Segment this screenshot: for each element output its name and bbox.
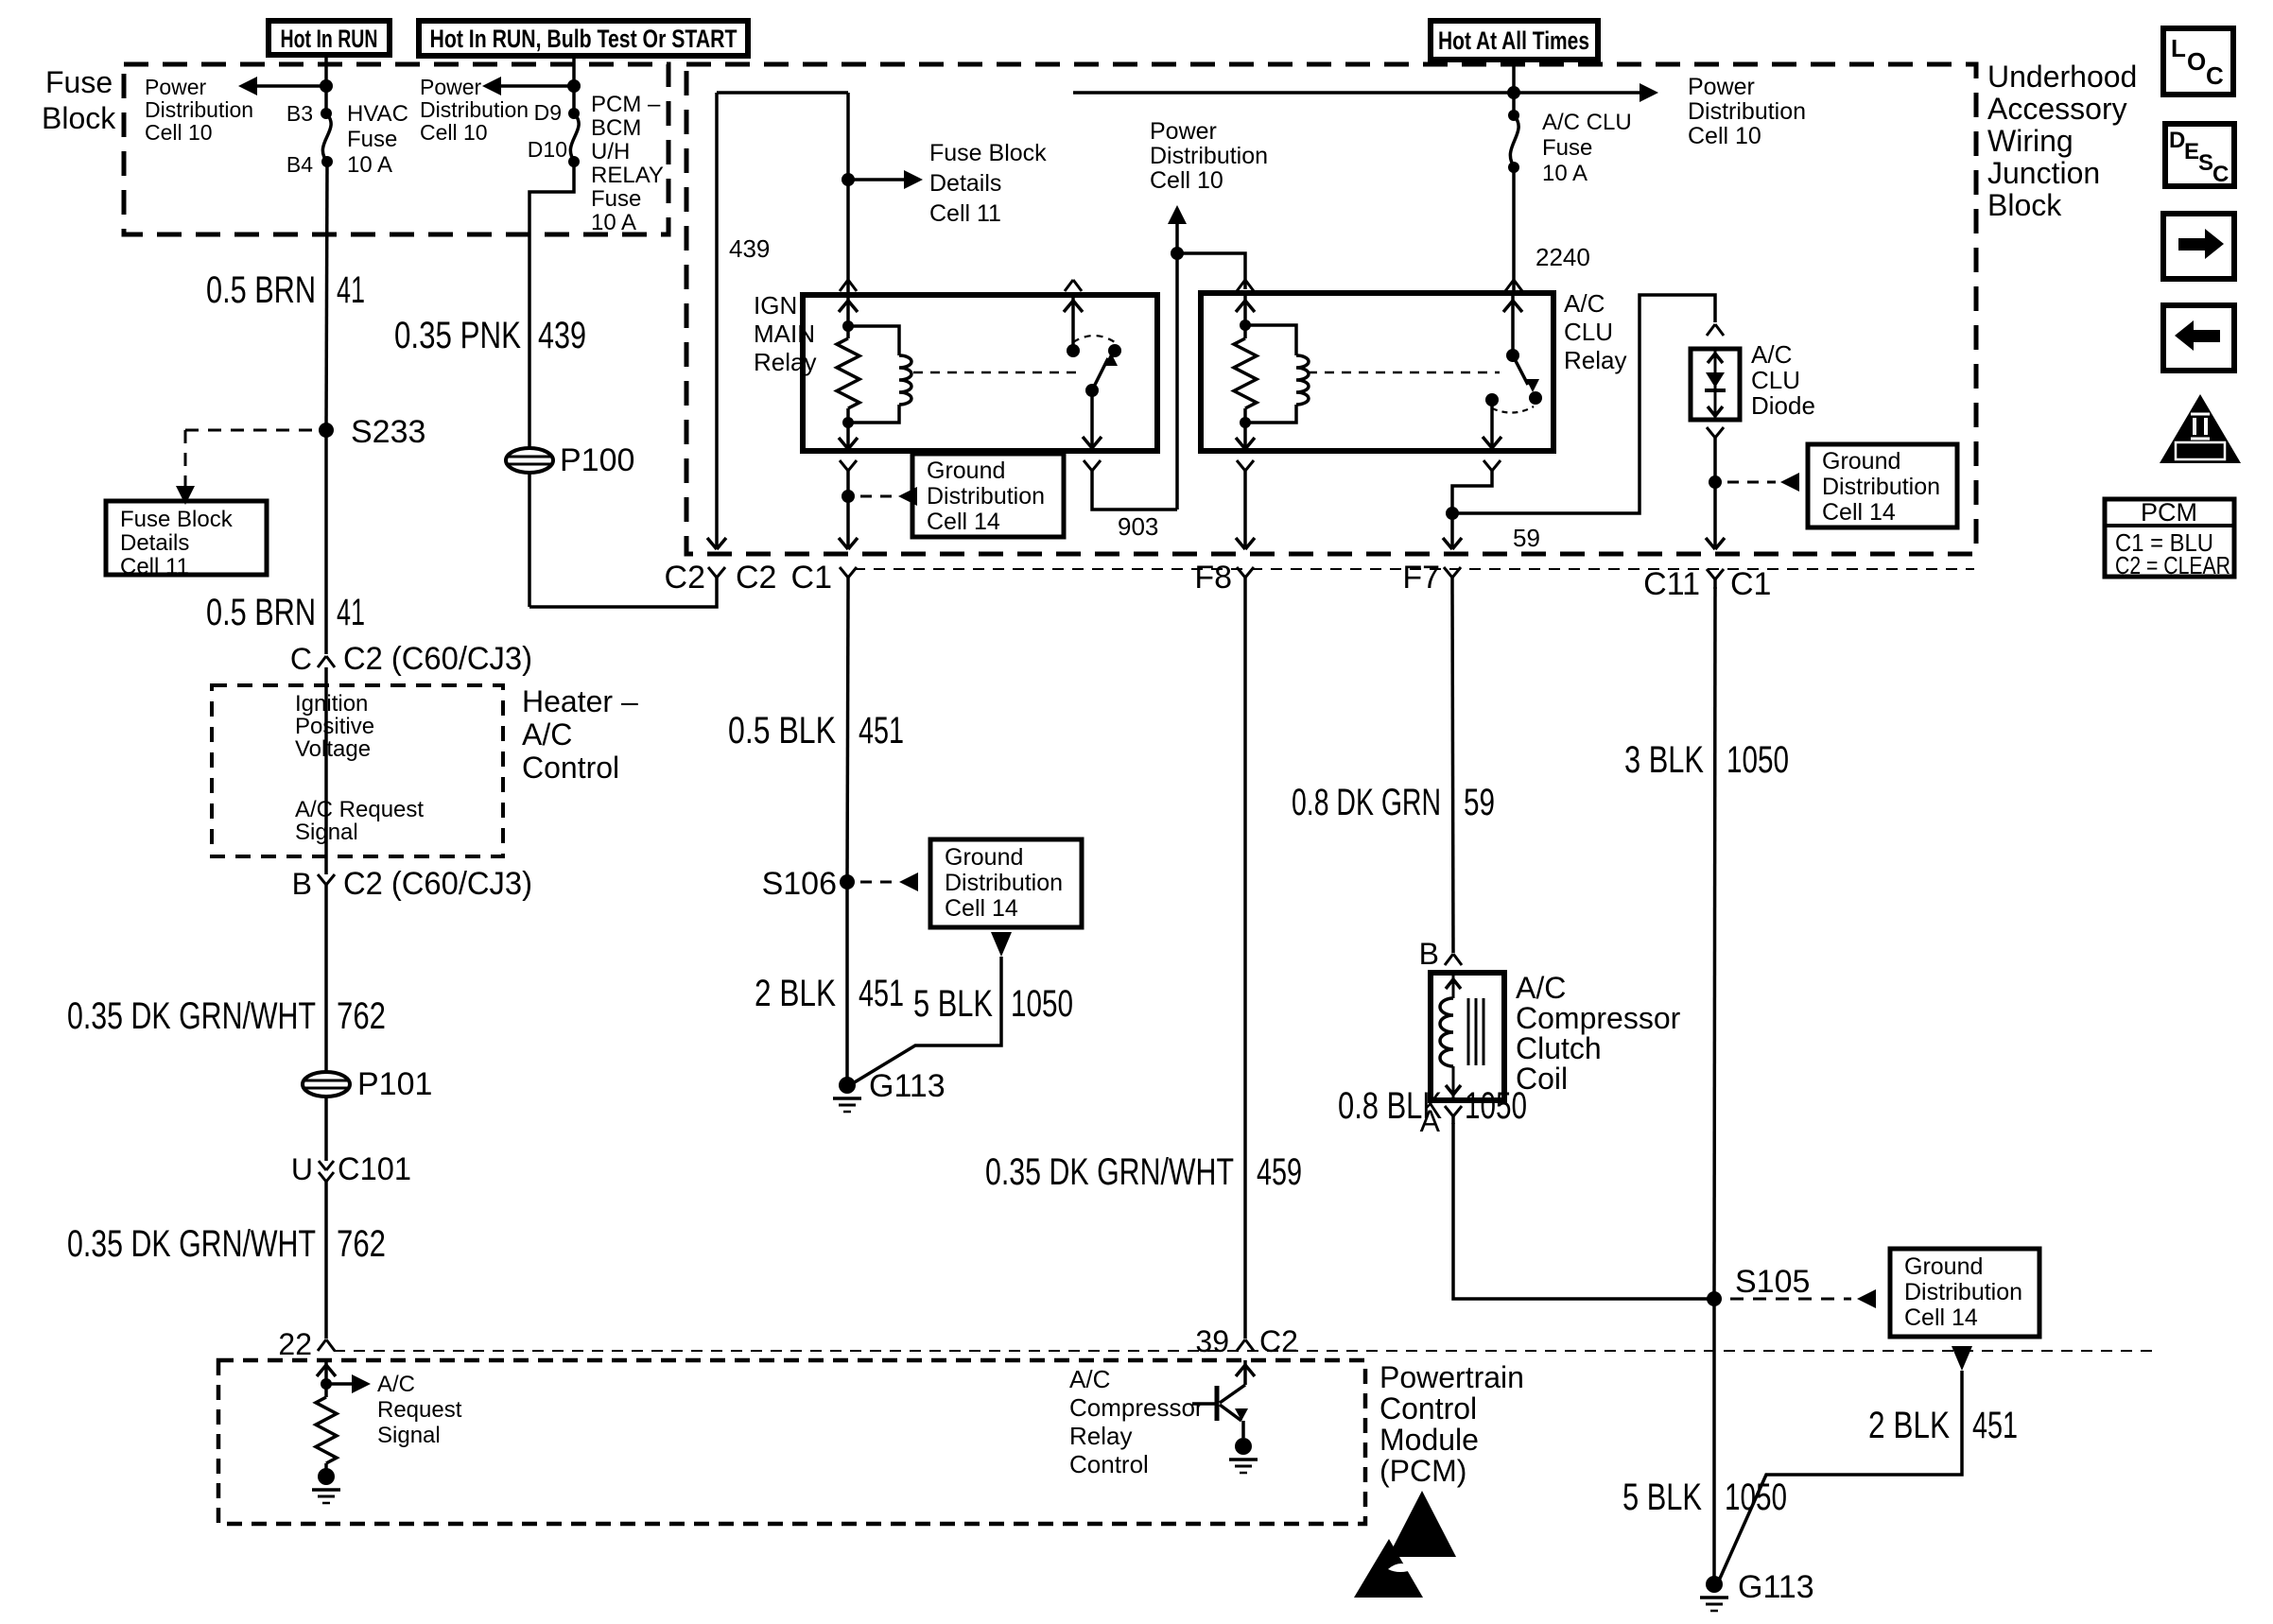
wire 451: S106 down to G113	[845, 882, 849, 1085]
connector Y at clutch A	[1445, 1106, 1462, 1124]
connector C / C2 (C60/CJ3)	[290, 641, 532, 677]
svg-text:C: C	[2212, 162, 2229, 187]
svg-text:Fuse Block: Fuse Block	[929, 140, 1047, 166]
svg-text:P101: P101	[357, 1066, 432, 1102]
svg-text:Cell 10: Cell 10	[145, 120, 213, 145]
svg-text:Module: Module	[1379, 1423, 1479, 1457]
A/C CLU diode box	[1691, 349, 1740, 420]
wire 451: C1 down to S106	[847, 587, 848, 882]
IGN relay switch moving contact	[1108, 344, 1121, 357]
power flag box: Hot In RUN	[269, 21, 390, 55]
connector U / C101	[291, 1151, 411, 1187]
wire label 3 BLK | 1050	[1624, 739, 1789, 781]
connector chevron at PCM pin 39	[1237, 1339, 1254, 1351]
AC relay resistor	[1234, 325, 1257, 423]
svg-text:Cell 10: Cell 10	[1150, 167, 1223, 194]
svg-text:(PCM): (PCM)	[1379, 1454, 1466, 1488]
wire: Bulb Test feed down to D9	[572, 56, 576, 113]
svg-text:Cell 11: Cell 11	[120, 554, 189, 579]
chevron into AC relay top (switch)	[1505, 280, 1522, 291]
label Fuse Block Details Cell 11	[929, 140, 1047, 227]
wire 439: under block to P100 branch	[529, 587, 717, 607]
label A/C Compressor Relay Control	[1069, 1365, 1204, 1478]
pin label D10	[528, 137, 567, 162]
svg-text:Details: Details	[120, 530, 189, 556]
wire 2240 down to AC relay switch	[1512, 167, 1516, 292]
wire inside heater box	[324, 667, 328, 874]
svg-text:C2: C2	[1259, 1324, 1298, 1358]
title Underhood Accessory Wiring Junction Block	[1987, 60, 2137, 222]
wire 439 top link	[717, 91, 848, 95]
svg-text:5 BLK: 5 BLK	[1622, 1477, 1702, 1518]
net label 59	[1513, 524, 1540, 552]
chevron into diode top	[1707, 324, 1724, 336]
svg-text:Positive: Positive	[295, 714, 374, 739]
svg-text:CLU: CLU	[1751, 366, 1800, 394]
fuse A/C CLU 10A symbol	[1510, 115, 1518, 167]
icon box right arrow	[2163, 214, 2234, 279]
svg-text:Fuse: Fuse	[1542, 135, 1592, 161]
dashed ref to Ground Distribution (S106)	[860, 872, 918, 891]
svg-text:S233: S233	[351, 414, 425, 450]
svg-text:D9: D9	[534, 100, 562, 125]
svg-text:F7: F7	[1402, 560, 1440, 596]
svg-text:Cell 14: Cell 14	[945, 895, 1018, 922]
svg-text:22: 22	[278, 1327, 312, 1361]
transistor Q (A/C compressor relay control)	[1192, 1385, 1248, 1438]
IGN relay actuator dashed link	[913, 371, 1084, 374]
AC relay switch arm	[1513, 355, 1539, 392]
svg-text:C2 (C60/CJ3): C2 (C60/CJ3)	[343, 866, 532, 902]
svg-text:MAIN: MAIN	[754, 320, 815, 348]
junction node on coil feed	[842, 173, 855, 186]
reference box Fuse Block Details Cell 11	[106, 501, 267, 579]
AC relay switch output arrow	[1483, 400, 1501, 448]
svg-text:RELAY: RELAY	[591, 163, 664, 188]
svg-text:Hot At All Times: Hot At All Times	[1438, 26, 1589, 55]
svg-text:C2 (C60/CJ3): C2 (C60/CJ3)	[343, 641, 532, 677]
svg-text:S106: S106	[762, 866, 837, 902]
svg-text:0.5 BRN: 0.5 BRN	[206, 592, 316, 633]
svg-text:Fuse: Fuse	[591, 186, 641, 212]
svg-text:PCM –: PCM –	[591, 92, 661, 117]
wire 59 down to F7 exit	[1443, 513, 1462, 549]
wire: Hot At All Times down	[1512, 60, 1516, 115]
svg-text:1050: 1050	[1465, 1085, 1527, 1127]
wire label 0.5 BRN | 41 (lower)	[206, 592, 365, 633]
IGN relay switch fixed contact	[1064, 295, 1083, 357]
AC relay bottom node	[1240, 417, 1251, 428]
pass-through grommet P101	[303, 1066, 432, 1102]
svg-text:5 BLK: 5 BLK	[913, 983, 993, 1025]
svg-text:PCM: PCM	[2141, 498, 2197, 527]
ground G113 (left)	[833, 1068, 946, 1112]
label IGN MAIN Relay	[754, 291, 816, 376]
svg-text:Power: Power	[1150, 118, 1217, 145]
connector exit C2 (PNK 439)	[665, 560, 777, 596]
reference box Ground Distribution Cell 14 (S105)	[1890, 1249, 2039, 1337]
svg-text:Diode: Diode	[1751, 391, 1815, 420]
label A/C Compressor Clutch Coil	[1516, 971, 1681, 1096]
svg-text:59: 59	[1513, 524, 1540, 552]
wire 439: P100 down	[528, 473, 531, 607]
svg-text:Power: Power	[1688, 74, 1755, 100]
connector exit C1	[791, 560, 857, 596]
svg-text:10 A: 10 A	[1542, 161, 1588, 186]
wire 41: B4 down to S233	[326, 162, 327, 430]
AC relay top node	[1240, 320, 1251, 331]
wire label 0.35 DK GRN/WHT | 762 (lower)	[67, 1223, 386, 1265]
fuse HVAC 10A symbol	[322, 113, 331, 162]
fuse PCM-BCM U/H RELAY symbol	[570, 113, 579, 162]
svg-text:Wiring: Wiring	[1987, 124, 2073, 158]
svg-text:HVAC: HVAC	[347, 101, 408, 127]
svg-text:U/H: U/H	[591, 139, 630, 164]
svg-text:C1: C1	[791, 560, 832, 596]
node D9	[568, 108, 580, 119]
fuse block title	[42, 65, 116, 135]
connector Y below IGN relay (coil)	[840, 460, 857, 480]
svg-text:451: 451	[1972, 1405, 2018, 1446]
chevron into IGN relay top (coil)	[840, 280, 857, 291]
connector exit C11 / C1	[1643, 566, 1771, 602]
svg-text:P100: P100	[560, 442, 634, 478]
pin label D9	[534, 100, 562, 125]
connector exit F8	[1194, 560, 1254, 596]
IGN relay coil wire arrow	[839, 295, 858, 326]
connector chevron at clutch B	[1445, 954, 1462, 965]
svg-text:O: O	[2187, 47, 2206, 76]
splice S105	[1707, 1264, 1810, 1306]
svg-text:A/C: A/C	[522, 717, 572, 752]
wire 762: C101 down to PCM pin 22	[324, 1182, 328, 1339]
wire: Hot In RUN feed down to B3	[324, 55, 328, 113]
svg-text:Ground: Ground	[927, 458, 1005, 484]
dashed ref to Ground Distribution (S105)	[1730, 1289, 1876, 1308]
connector Y below diode	[1707, 427, 1724, 445]
diode element	[1705, 349, 1726, 420]
svg-text:E: E	[2184, 139, 2199, 164]
label PCM-BCM U/H RELAY Fuse 10 A	[591, 92, 664, 235]
svg-text:Hot In RUN: Hot In RUN	[281, 25, 378, 53]
pass-through grommet P100	[506, 442, 634, 478]
svg-text:Relay: Relay	[1564, 346, 1626, 374]
svg-text:Distribution: Distribution	[1688, 98, 1806, 125]
reference box Ground Distribution Cell 14 (S106)	[930, 839, 1082, 927]
wire 59: F7 down to clutch B	[1452, 587, 1453, 953]
svg-text:D10: D10	[528, 137, 567, 162]
A/C request pull resistor	[316, 1384, 337, 1471]
svg-text:Control: Control	[1069, 1450, 1149, 1478]
svg-text:OBD II: OBD II	[2178, 444, 2222, 460]
svg-text:0.35 DK GRN/WHT: 0.35 DK GRN/WHT	[67, 1223, 316, 1265]
label Power Distribution Cell 10 (middle)	[1150, 118, 1268, 194]
svg-text:Distribution: Distribution	[145, 97, 253, 122]
svg-text:3 BLK: 3 BLK	[1624, 739, 1704, 781]
svg-text:Fuse: Fuse	[347, 127, 397, 152]
IGN relay switch arm	[1092, 353, 1118, 390]
wire label 2 BLK | 451 (right)	[1868, 1405, 2018, 1446]
svg-text:IGN: IGN	[754, 291, 797, 320]
svg-text:Distribution: Distribution	[1904, 1279, 2022, 1305]
A/C request node	[321, 1378, 332, 1390]
wire label 0.5 BRN | 41 (upper)	[206, 269, 365, 311]
wire 903 riser	[1175, 253, 1179, 510]
pin label B (clutch)	[1419, 937, 1439, 971]
wire label 5 BLK | 1050 (right)	[1622, 1477, 1787, 1518]
svg-text:Distribution: Distribution	[1150, 143, 1268, 169]
svg-text:0.8 DK GRN: 0.8 DK GRN	[1292, 782, 1441, 823]
wire label 0.5 BLK | 451	[728, 710, 904, 752]
net label 439	[729, 234, 770, 263]
wire label 5 BLK | 1050	[913, 983, 1073, 1025]
chevron into AC relay top (coil)	[1237, 280, 1254, 291]
svg-text:Distribution: Distribution	[1822, 474, 1940, 500]
wire 1050: diode to C11 exit	[1706, 445, 1725, 549]
svg-text:2240: 2240	[1536, 243, 1590, 271]
wire 439: D10 jog to P100	[529, 162, 574, 448]
label Power Distribution Cell 10 (second)	[420, 75, 529, 145]
svg-text:Details: Details	[929, 170, 1001, 197]
icon OBD II triangle	[2160, 394, 2241, 463]
wire: relay coil feed at C1 rail	[846, 93, 850, 292]
wire label 0.8 BLK | 1050	[1338, 1085, 1527, 1127]
heater A/C control dashed boundary	[212, 685, 503, 856]
PCM dashed boundary	[218, 1360, 1365, 1524]
svg-text:Distribution: Distribution	[945, 870, 1063, 896]
svg-text:0.35 PNK: 0.35 PNK	[394, 315, 521, 356]
dashed ref to Ground Distribution (relay)	[860, 487, 917, 506]
svg-text:Cell 14: Cell 14	[1822, 499, 1896, 526]
pin label B3	[286, 101, 313, 126]
wire 59 to diode riser	[1452, 295, 1715, 513]
svg-text:Ground: Ground	[945, 844, 1023, 871]
svg-text:Power: Power	[145, 75, 207, 99]
arrow below Ground Distribution box (S106)	[991, 932, 1012, 957]
ground inside PCM (transistor)	[1229, 1438, 1258, 1473]
IGN relay bottom node	[842, 417, 854, 428]
wire 459: AC relay coil to F8 exit	[1236, 480, 1255, 549]
power rail in junction block	[1073, 91, 1640, 95]
node A/C CLU fuse bottom	[1508, 162, 1519, 173]
svg-text:A/C CLU: A/C CLU	[1542, 110, 1632, 135]
icon box LOC	[2163, 28, 2233, 95]
IGN MAIN relay box	[803, 295, 1157, 451]
connector chevron at PCM pin 22	[318, 1339, 335, 1351]
svg-text:C2: C2	[736, 560, 776, 596]
AC relay coil out arrow	[1236, 423, 1255, 449]
label A/C CLU Diode	[1751, 340, 1815, 420]
svg-text:Relay: Relay	[754, 348, 816, 376]
dashed reference from S233 to Fuse Block Details	[176, 430, 318, 505]
svg-text:Control: Control	[1379, 1391, 1477, 1425]
svg-text:Cell 10: Cell 10	[420, 120, 488, 145]
wire 59 jog to junction	[1452, 478, 1492, 513]
wire label 2 BLK | 451	[755, 973, 904, 1014]
node D10	[568, 156, 580, 167]
pin label A (clutch)	[1420, 1104, 1441, 1138]
connector Y below IGN relay (switch)	[1084, 460, 1101, 480]
svg-text:A/C: A/C	[1516, 971, 1566, 1005]
IGN relay resistor	[837, 326, 859, 423]
svg-text:Relay: Relay	[1069, 1422, 1132, 1450]
arrow to Power Distribution Cell 10 (second)	[482, 77, 574, 95]
IGN relay switch travel arc	[1073, 336, 1115, 342]
reference box Ground Distribution Cell 14 (diode)	[1808, 444, 1957, 527]
connector exit F7	[1402, 560, 1461, 596]
svg-text:Power: Power	[420, 75, 482, 99]
svg-text:B: B	[292, 867, 312, 901]
arrow to Power Distribution Cell 10 (right)	[1640, 83, 1658, 102]
svg-text:A/C: A/C	[1564, 289, 1605, 318]
label Ignition Positive Voltage	[295, 691, 374, 762]
svg-text:G113: G113	[1738, 1569, 1814, 1605]
wire label 0.8 DK GRN | 59	[1292, 782, 1495, 823]
IGN relay switch output arrow	[1083, 390, 1102, 448]
wire label 0.35 DK GRN/WHT | 459	[985, 1151, 1302, 1193]
wire 451: ground box to G113 (right)	[1719, 1371, 1962, 1581]
svg-text:BCM: BCM	[591, 115, 641, 141]
title Heater - A/C Control	[522, 684, 638, 785]
svg-text:A/C: A/C	[377, 1372, 415, 1397]
label A/C CLU Relay	[1564, 289, 1626, 374]
AC relay switch travel arc	[1492, 406, 1534, 413]
svg-text:0.8 BLK: 0.8 BLK	[1338, 1085, 1442, 1127]
label HVAC Fuse 10 A	[347, 101, 408, 178]
svg-text:2 BLK: 2 BLK	[1868, 1405, 1950, 1446]
svg-text:F8: F8	[1194, 560, 1232, 596]
reference box Ground Distribution Cell 14 (relay)	[912, 454, 1064, 537]
arrow A/C Request Signal	[326, 1374, 371, 1393]
svg-text:1050: 1050	[1011, 983, 1073, 1025]
svg-text:Clutch: Clutch	[1516, 1031, 1602, 1065]
svg-text:0.35 DK GRN/WHT: 0.35 DK GRN/WHT	[67, 995, 316, 1037]
wire label 0.35 DK GRN/WHT | 762 (upper)	[67, 995, 386, 1037]
svg-text:59: 59	[1464, 782, 1495, 823]
svg-text:C101: C101	[338, 1151, 411, 1187]
dashed ref to Ground Distribution (diode)	[1727, 473, 1799, 492]
svg-text:C11: C11	[1643, 566, 1700, 602]
wire 903 jog	[1092, 480, 1177, 510]
svg-text:G113: G113	[869, 1068, 946, 1104]
svg-text:C2 = CLEAR: C2 = CLEAR	[2115, 551, 2230, 579]
wire 41: S233 down to connector C	[324, 430, 328, 654]
wire label 0.35 PNK | 439	[394, 315, 586, 356]
icon box DESC	[2165, 124, 2234, 187]
svg-text:Block: Block	[42, 101, 116, 135]
wire 762: B down to P101	[324, 894, 328, 1072]
label A/C Request Signal (PCM)	[377, 1372, 462, 1448]
svg-text:S105: S105	[1735, 1264, 1810, 1300]
splice node to ground ref (relay coil)	[842, 490, 855, 503]
connector Y below AC relay (coil)	[1237, 460, 1254, 480]
svg-text:Distribution: Distribution	[420, 97, 529, 122]
net label 903	[1118, 512, 1158, 541]
pin label 22	[278, 1327, 312, 1361]
svg-text:C2: C2	[665, 560, 705, 596]
svg-text:Ignition: Ignition	[295, 691, 368, 717]
ground inside PCM (left)	[312, 1468, 340, 1503]
label Power Distribution Cell 10 (right)	[1688, 74, 1806, 149]
svg-text:Voltage: Voltage	[295, 736, 371, 762]
svg-text:439: 439	[729, 234, 770, 263]
svg-text:Junction: Junction	[1987, 156, 2100, 190]
svg-text:451: 451	[859, 710, 904, 752]
svg-text:Control: Control	[522, 751, 619, 785]
AC relay switch input wire	[1503, 293, 1522, 355]
svg-text:Underhood: Underhood	[1987, 60, 2137, 94]
pin label B4	[286, 152, 313, 177]
svg-text:41: 41	[337, 269, 365, 311]
AC relay switch moving contact	[1529, 391, 1542, 405]
svg-text:A/C Request: A/C Request	[295, 797, 424, 822]
svg-text:U: U	[291, 1152, 313, 1186]
svg-text:Cell 11: Cell 11	[929, 200, 1001, 227]
svg-text:Ground: Ground	[1904, 1253, 1983, 1280]
ESD symbol triangles	[1354, 1491, 1456, 1598]
svg-text:2 BLK: 2 BLK	[755, 973, 836, 1014]
thin connector line at PCM top	[334, 1350, 2159, 1352]
svg-text:Request: Request	[377, 1397, 462, 1423]
junction node above D9	[567, 79, 581, 93]
svg-text:Fuse: Fuse	[45, 65, 113, 99]
pin label 39 / C2	[1195, 1324, 1298, 1358]
A/C request input arrow	[317, 1360, 336, 1384]
ground G113 (right)	[1700, 1569, 1814, 1611]
splice S106	[762, 866, 855, 902]
svg-text:C: C	[290, 642, 312, 676]
svg-text:903: 903	[1118, 512, 1158, 541]
svg-text:762: 762	[337, 1223, 386, 1265]
connector Y below AC relay (switch)	[1484, 460, 1501, 478]
svg-text:1050: 1050	[1725, 1477, 1787, 1518]
svg-text:1050: 1050	[1726, 739, 1789, 781]
IGN relay switch pivot	[1085, 384, 1099, 397]
svg-text:Compressor: Compressor	[1516, 1001, 1681, 1035]
svg-text:Heater –: Heater –	[522, 684, 638, 718]
svg-text:Accessory: Accessory	[1987, 92, 2127, 126]
icon box left arrow	[2163, 305, 2234, 371]
wire 1050: clutch A down to S105	[1453, 1123, 1714, 1299]
power flag box: Hot In RUN, Bulb Test Or START	[419, 21, 748, 56]
svg-text:A/C: A/C	[1751, 340, 1792, 369]
net label 2240	[1536, 243, 1590, 271]
junction node at rail	[1507, 86, 1520, 99]
transistor collector arrow	[1236, 1360, 1255, 1385]
svg-text:10 A: 10 A	[591, 210, 636, 235]
IGN relay coil out arrow	[839, 423, 858, 449]
svg-text:439: 439	[538, 315, 586, 356]
wire 439 vertical to C2 exit	[707, 93, 726, 549]
A/C CLU relay box	[1201, 293, 1553, 451]
wire 459: F8 down to PCM pin 39	[1243, 587, 1247, 1339]
svg-text:B: B	[1419, 937, 1439, 971]
svg-text:A/C: A/C	[1069, 1365, 1110, 1393]
svg-text:Cell 14: Cell 14	[1904, 1304, 1978, 1331]
svg-text:Hot In RUN, Bulb Test Or START: Hot In RUN, Bulb Test Or START	[430, 25, 737, 53]
splice S233	[319, 414, 425, 450]
arrow below Ground Distribution box (S105)	[1952, 1346, 1972, 1371]
junction node above B3	[320, 79, 333, 93]
node B4	[321, 156, 333, 167]
node B3	[321, 108, 332, 119]
wire 762: P101 to C101	[324, 1097, 328, 1161]
chevron into IGN relay top (switch)	[1065, 280, 1082, 291]
A/C compressor clutch coil box	[1431, 973, 1504, 1100]
thin connector line below junction block	[854, 568, 1974, 570]
junction node 59	[1446, 507, 1459, 520]
title Powertrain Control Module (PCM)	[1379, 1360, 1524, 1488]
